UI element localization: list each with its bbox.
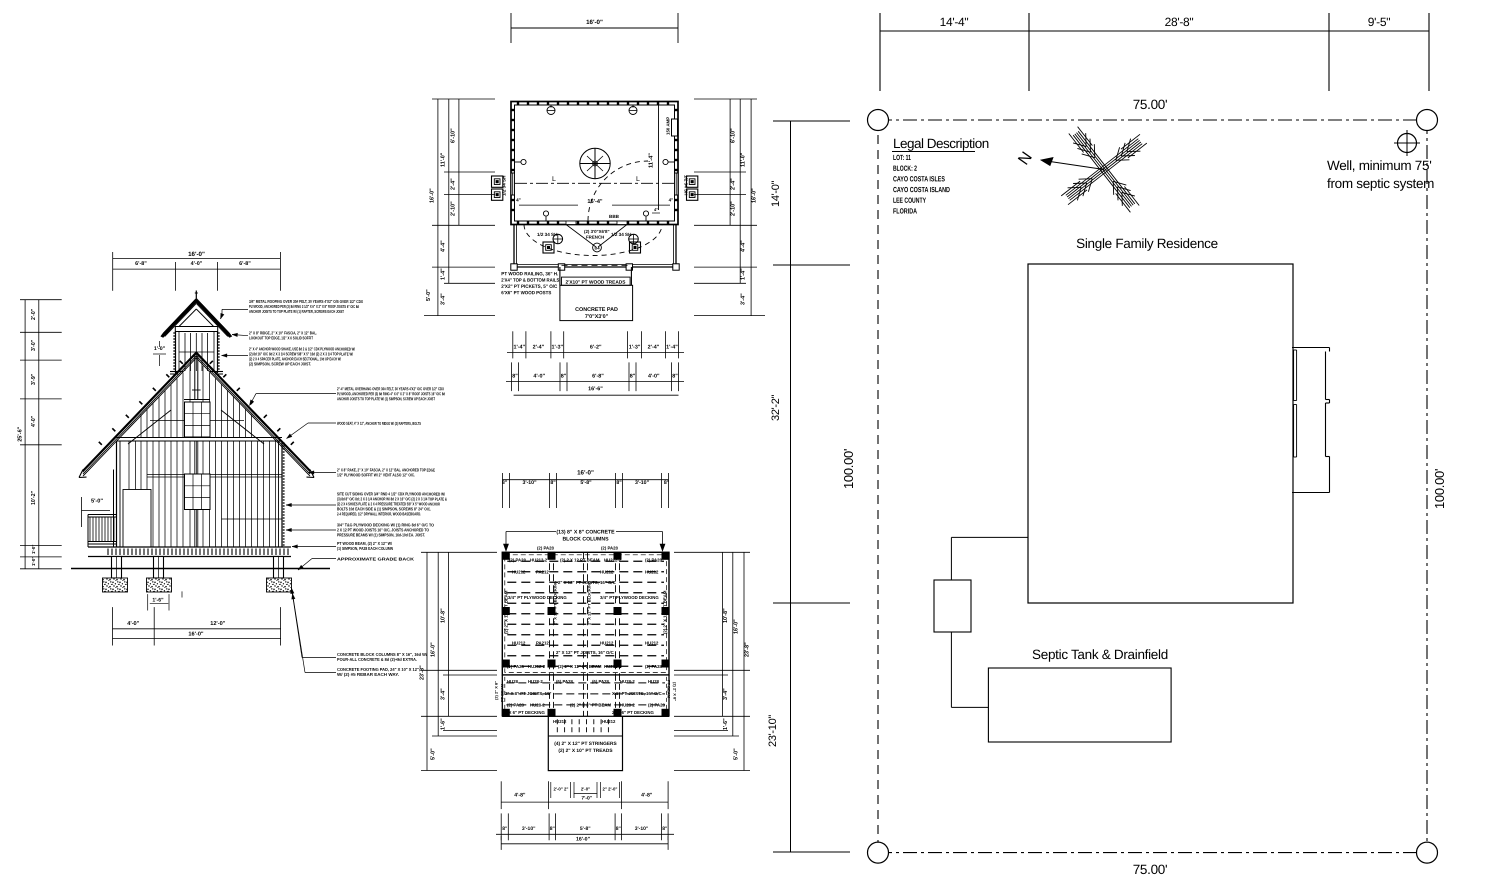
svg-text:11'-0": 11'-0" [441,152,447,167]
svg-text:1'-6": 1'-6" [723,718,729,730]
svg-text:HU28-2: HU28-2 [620,703,635,708]
svg-text:HU212: HU212 [512,570,526,575]
svg-text:Septic Tank & Drainfield: Septic Tank & Drainfield [1032,647,1168,662]
svg-text:HU28: HU28 [507,679,519,684]
svg-text:LOOKOUT TOP EDGE, 1/2" X 6 SOL: LOOKOUT TOP EDGE, 1/2" X 6 SOLID SOFFIT [249,335,313,340]
svg-text:5'-0": 5'-0" [426,289,432,301]
svg-text:(2) PA28: (2) PA28 [648,703,665,708]
svg-text:16'-0": 16'-0" [431,642,437,657]
svg-text:6'-8": 6'-8" [135,261,147,267]
svg-text:2'-10": 2'-10" [731,201,737,216]
svg-text:5'-8": 5'-8" [580,826,591,832]
svg-text:3'-4": 3'-4" [441,688,447,700]
svg-text:10'-8": 10'-8" [441,608,447,623]
svg-text:3'-4": 3'-4" [741,293,747,305]
svg-text:2'-10": 2'-10" [451,201,457,216]
svg-text:POUR-ALL CONCRETE & 8d (2)+8d: POUR-ALL CONCRETE & 8d (2)+8d EXTRA. [337,657,417,662]
svg-text:HU212: HU212 [553,719,567,724]
svg-text:BBB: BBB [609,214,620,219]
svg-text:(2) PA28: (2) PA28 [537,546,554,551]
svg-text:2'-4": 2'-4" [731,178,737,190]
svg-text:8": 8" [672,373,678,379]
svg-text:2" X 12" PT BLOCKING: 2" X 12" PT BLOCKING [553,581,558,625]
svg-text:2'X2" PT PICKETS, 5" O/C: 2'X2" PT PICKETS, 5" O/C [501,284,557,290]
svg-text:6'-2": 6'-2" [590,344,602,350]
svg-text:2" X 12" PT JOISTS, 16" O/C: 2" X 12" PT JOISTS, 16" O/C [556,650,614,655]
svg-text:HU212-2: HU212-2 [530,558,548,563]
svg-text:2'X10" PT WOOD TREADS: 2'X10" PT WOOD TREADS [566,280,627,286]
svg-text:HU212: HU212 [600,641,614,646]
svg-text:4'-0": 4'-0" [31,415,37,427]
svg-text:8": 8" [550,826,556,832]
svg-text:HU28: HU28 [648,679,660,684]
svg-text:1'-6": 1'-6" [441,718,447,730]
svg-text:(2) PA28: (2) PA28 [601,546,618,551]
svg-text:11'-0": 11'-0" [741,152,747,167]
svg-text:8": 8" [502,826,508,832]
svg-text:APPROXIMATE GRADE BACK: APPROXIMATE GRADE BACK [337,557,414,562]
svg-text:3/4" PT PLYWOOD DECKING: 3/4" PT PLYWOOD DECKING [600,595,659,600]
svg-text:(6) PA28: (6) PA28 [556,679,573,684]
svg-text:32'-2": 32'-2" [770,394,782,421]
svg-text:3'-4": 3'-4" [723,688,729,700]
svg-text:(6) PA28: (6) PA28 [592,679,609,684]
svg-text:1'-3": 1'-3" [551,344,563,350]
svg-text:1/2 34 SH: 1/2 34 SH [684,175,689,196]
svg-text:16'-6": 16'-6" [588,386,603,392]
svg-text:3/4" PT PLYWOOD DECKING: 3/4" PT PLYWOOD DECKING [508,595,567,600]
svg-text:150 AMP: 150 AMP [666,117,671,135]
svg-text:Well, minimum 75': Well, minimum 75' [1327,158,1432,173]
svg-text:8": 8" [630,373,636,379]
svg-text:8": 8" [662,826,668,832]
svg-text:W/ (2) #5 REBAR EACH WAY.: W/ (2) #5 REBAR EACH WAY. [337,672,399,677]
svg-text:6'-10": 6'-10" [451,128,457,143]
svg-text:X 8" PT JOISTS, 16" O/C: X 8" PT JOISTS, 16" O/C [612,691,662,696]
svg-text:3'-10": 3'-10" [522,480,537,486]
svg-text:HU212: HU212 [645,641,659,646]
svg-text:ANCHOR JOISTS TO TOP PLATE W/: ANCHOR JOISTS TO TOP PLATE W/ (1) SIMPSO… [337,396,435,401]
svg-text:8": 8" [664,480,670,486]
svg-text:(2) 2" X 12" PT BEAM: (2) 2" X 12" PT BEAM [663,590,668,634]
svg-text:1'-3": 1'-3" [629,344,641,350]
svg-text:Legal Description: Legal Description [893,136,989,151]
svg-text:8": 8" [616,480,622,486]
svg-text:(2) PA28: (2) PA28 [507,703,524,708]
svg-text:LEE COUNTY: LEE COUNTY [893,196,926,205]
svg-text:HU28-2: HU28-2 [620,679,635,684]
svg-text:HU28-2: HU28-2 [528,679,543,684]
svg-text:1'-0": 1'-0" [31,557,36,566]
svg-text:(2) PA28: (2) PA28 [645,558,662,563]
svg-text:PA212: PA212 [536,641,549,646]
svg-text:9'-5": 9'-5" [1368,15,1390,29]
svg-text:(2) 3'0"X6'8": (2) 3'0"X6'8" [584,229,610,234]
svg-text:HU212: HU212 [600,570,614,575]
svg-text:(2) SIMPSON, SCREW UP EACH JOI: (2) SIMPSON, SCREW UP EACH JOIST. [249,361,311,366]
svg-text:1/2 34 SH: 1/2 34 SH [537,232,558,237]
svg-text:25'-6": 25'-6" [18,426,24,442]
svg-text:(2) 2" X 8" PT BEAM: (2) 2" X 8" PT BEAM [570,703,612,708]
svg-text:3'-10": 3'-10" [635,826,649,832]
svg-text:2'-4": 2'-4" [533,344,545,350]
svg-text:3'-9": 3'-9" [31,373,37,385]
svg-text:16'-0": 16'-0" [576,836,591,842]
svg-text:3'-0": 3'-0" [31,339,37,351]
svg-text:2'-4": 2'-4" [648,344,660,350]
svg-text:HU212-2: HU212-2 [604,558,622,563]
svg-text:CAYO COSTA ISLAND: CAYO COSTA ISLAND [893,185,950,194]
svg-text:2" X 8" PT JOISTS, 16": 2" X 8" PT JOISTS, 16" [505,691,551,696]
svg-text:L: L [552,176,556,183]
svg-text:3'-10": 3'-10" [635,480,650,486]
svg-text:16'-0": 16'-0" [188,631,204,637]
svg-text:HU212: HU212 [602,719,616,724]
svg-text:PT BEAM: PT BEAM [500,683,505,702]
svg-text:N: N [1015,149,1036,168]
svg-text:5'-0": 5'-0" [91,498,103,504]
svg-text:5'-8": 5'-8" [580,480,592,486]
svg-text:HU28-2: HU28-2 [530,703,545,708]
svg-text:8": 8" [561,373,567,379]
svg-text:PT BEAM: PT BEAM [667,680,672,699]
svg-text:1'-4": 1'-4" [741,268,747,280]
svg-text:16'-0": 16'-0" [577,469,594,476]
svg-text:2" 2'-0": 2" 2'-0" [603,786,618,791]
svg-text:1'-4": 1'-4" [441,268,447,280]
svg-text:2'-0" 2": 2'-0" 2" [554,786,569,791]
svg-text:75.00': 75.00' [1133,862,1168,877]
svg-text:15'-4": 15'-4" [587,199,603,205]
svg-text:4'-0": 4'-0" [533,373,545,379]
svg-text:1'-4": 1'-4" [666,344,678,350]
svg-text:4'-0": 4'-0" [191,261,203,267]
svg-text:5'-0": 5'-0" [734,748,740,760]
svg-text:(1) PA28: (1) PA28 [507,664,524,669]
svg-text:8": 8" [502,480,508,486]
svg-text:28'-8": 28'-8" [1165,15,1194,29]
svg-text:1/2" PLYWOOD SOFFIT W/ 2" VENT: 1/2" PLYWOOD SOFFIT W/ 2" VENT ALSO 12" … [337,472,415,477]
svg-text:1/2 34 SH: 1/2 34 SH [502,175,507,196]
svg-text:CAYO COSTA ISLES: CAYO COSTA ISLES [893,174,945,183]
svg-text:6'-8": 6'-8" [239,261,251,267]
svg-text:4": 4" [654,207,658,212]
svg-text:3'-10": 3'-10" [522,826,536,832]
svg-text:1'-6": 1'-6" [152,597,164,603]
svg-text:6'-8": 6'-8" [592,373,604,379]
svg-text:HU212-2: HU212-2 [604,664,622,669]
svg-text:PRESSURE BEAMS W/ (1) SIMPSON,: PRESSURE BEAMS W/ (1) SIMPSON, 16d-10d E… [337,532,425,537]
svg-text:23'-8": 23'-8" [420,665,426,680]
svg-text:16'-0": 16'-0" [752,188,758,203]
svg-text:12'-0": 12'-0" [210,621,226,627]
svg-text:Single Family Residence: Single Family Residence [1076,236,1218,251]
svg-text:(2) PA28: (2) PA28 [645,664,662,669]
svg-text:(2) PA28: (2) PA28 [509,558,526,563]
svg-text:2" X 12" PT JOISTS, 16" O/C: 2" X 12" PT JOISTS, 16" O/C [558,580,616,585]
svg-text:2'X4" TOP & BOTTOM RAILS: 2'X4" TOP & BOTTOM RAILS [501,278,560,284]
svg-text:BLOCK COLUMNS: BLOCK COLUMNS [562,536,609,542]
svg-text:4'-8": 4'-8" [514,792,526,798]
svg-text:L: L [636,176,640,183]
svg-text:2-4 REQUIRED, 1/2" DRYWALL INT: 2-4 REQUIRED, 1/2" DRYWALL INTERIOR, WOO… [337,511,421,516]
svg-text:HU212-2: HU212-2 [528,664,546,669]
svg-text:4'-0": 4'-0" [648,373,660,379]
svg-text:11'-4": 11'-4" [649,153,655,168]
svg-text:3'-4": 3'-4" [441,293,447,305]
svg-text:6'X6" PT WOOD POSTS: 6'X6" PT WOOD POSTS [501,290,552,296]
svg-text:4": 4" [669,197,674,202]
svg-text:(2) 2" X 8": (2) 2" X 8" [494,681,499,700]
svg-text:4'-4": 4'-4" [441,240,447,252]
svg-text:1'-4": 1'-4" [513,344,525,350]
svg-text:(4) 2" X 12" PT STRINGERS: (4) 2" X 12" PT STRINGERS [554,741,617,747]
svg-text:BLOCK: 2: BLOCK: 2 [893,164,917,173]
svg-text:4": 4" [516,197,521,202]
svg-text:16'-0": 16'-0" [430,188,436,203]
svg-text:2'-0": 2'-0" [581,786,590,791]
svg-text:2'-4": 2'-4" [451,178,457,190]
svg-text:(1) SIMPSON, PA28 EACH COLUMN: (1) SIMPSON, PA28 EACH COLUMN [337,546,393,551]
svg-text:8": 8" [550,480,556,486]
svg-text:8": 8" [512,373,518,379]
svg-text:(13) 8" X 8" CONCRETE: (13) 8" X 8" CONCRETE [556,529,615,535]
svg-text:4'-0": 4'-0" [127,621,139,627]
svg-text:ANCHOR JOISTS TO TOP PLATE W/: ANCHOR JOISTS TO TOP PLATE W/ (1) RAFTER… [249,309,344,314]
svg-text:100.00': 100.00' [841,449,856,489]
svg-text:6'-10": 6'-10" [731,128,737,143]
svg-text:WOOD SEAT, 4" X 12", ANCHOR TO: WOOD SEAT, 4" X 12", ANCHOR TO RIDGE W/ … [337,421,421,426]
svg-text:75.00': 75.00' [1133,97,1168,112]
svg-text:(2) 2" X 10" PT TREADS: (2) 2" X 10" PT TREADS [558,748,613,754]
svg-text:16'-0": 16'-0" [586,19,603,26]
svg-text:CONCRETE PAD: CONCRETE PAD [575,307,618,313]
svg-text:FRENCH: FRENCH [586,235,604,240]
svg-text:PA212: PA212 [536,570,549,575]
svg-text:100.00': 100.00' [1432,469,1447,509]
svg-text:23'-10": 23'-10" [767,715,779,747]
svg-text:14'-0": 14'-0" [770,180,782,207]
svg-text:1'-0": 1'-0" [31,545,36,554]
svg-text:4'-4": 4'-4" [741,240,747,252]
svg-text:FLORIDA: FLORIDA [893,207,917,216]
svg-text:LOT: 11: LOT: 11 [893,153,911,162]
svg-text:(2) 2" X 12" PT BEAM: (2) 2" X 12" PT BEAM [558,664,602,669]
svg-text:HU212: HU212 [512,641,526,646]
svg-text:(2) 2" X 8": (2) 2" X 8" [673,682,678,701]
svg-text:HU212: HU212 [645,570,659,575]
svg-text:16'-0": 16'-0" [734,619,740,634]
svg-text:8": 8" [616,826,622,832]
svg-text:5'-0": 5'-0" [431,748,437,760]
svg-text:(2) 2 X 12 PT BEAM: (2) 2 X 12 PT BEAM [560,558,600,563]
svg-text:10'-2": 10'-2" [31,490,37,505]
svg-text:7'0"X3'0": 7'0"X3'0" [585,314,609,320]
svg-text:14'-4": 14'-4" [940,15,969,29]
svg-text:7'-0": 7'-0" [581,795,592,801]
svg-text:PT WOOD RAILING, 36" H.: PT WOOD RAILING, 36" H. [501,271,558,277]
svg-text:2'-0": 2'-0" [31,308,37,320]
svg-text:10'-8": 10'-8" [723,608,729,623]
svg-text:23'-8": 23'-8" [745,642,751,657]
svg-text:4'-8": 4'-8" [641,792,653,798]
svg-text:from septic system: from septic system [1327,176,1434,191]
svg-text:2" X 12" PT BLOCKING: 2" X 12" PT BLOCKING [587,581,592,625]
svg-text:16'-0": 16'-0" [188,251,205,258]
